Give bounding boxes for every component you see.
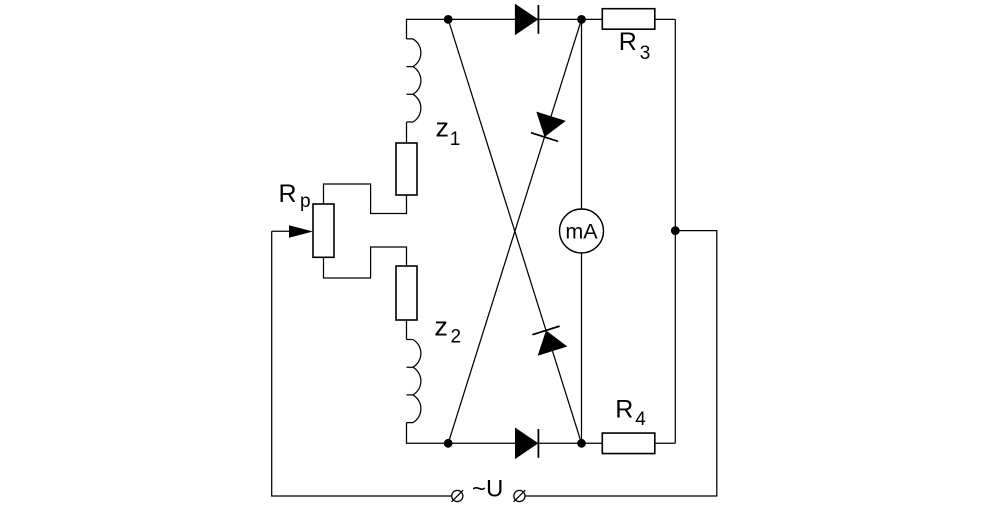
node right-mid [671,226,680,235]
svg-text:R: R [619,28,637,56]
wire right vertical R3 to R4 [674,19,676,443]
svg-text:1: 1 [450,129,461,150]
wire wiper lead [272,230,292,232]
wire Z2 box to Z2 coil [406,320,408,340]
node top-left [444,15,453,24]
label z1 [436,113,461,150]
diode lower-cross cathode bar [532,326,559,335]
label Rp [279,180,311,212]
wire bottom rail from Z2 corner to R4 [407,423,603,444]
wire diagonal from top-left node to bottom-right node [448,19,581,443]
wire Rp bottom to Z2 top (zigzag) [324,247,407,278]
svg-text:R: R [279,180,297,208]
terminal left [452,490,463,501]
label R3 [619,28,651,64]
diode bottom triangle [515,428,538,460]
svg-text:p: p [300,191,311,212]
label R4 [615,396,646,430]
svg-text:3: 3 [640,43,651,64]
diode top cathode bar [537,5,539,34]
diode lower-cross triangle [538,330,568,355]
inductor Z1 coil [407,39,421,122]
wire right outer branch from source to right vertical [525,231,717,496]
inductor Z2 coil [407,340,421,423]
diode top triangle [515,4,538,36]
svg-text:z: z [436,113,450,143]
resistor R4 [602,433,655,454]
node bottom-left [444,439,453,448]
terminal right [514,490,525,501]
wire top rail from Z1 corner to R3 [407,19,603,39]
milliammeter mA [560,209,604,253]
svg-text:z: z [434,312,448,342]
node top-right [577,15,586,24]
wiper arrow of Rp [289,225,313,238]
wire Z1 coil to Z1 box [406,122,408,143]
wire meter branch upper [581,19,583,209]
svg-text:mA: mA [565,220,598,244]
svg-text:~U: ~U [472,475,503,502]
diode upper-cross triangle [536,112,566,137]
wire meter branch lower [581,253,583,443]
wire diagonal from top-right node to bottom-left node [448,19,581,443]
label z2 [434,312,461,348]
wire Z1 box to Rp top (zigzag) [324,184,407,214]
wire R3 right to corner [655,18,676,20]
svg-text:R: R [615,396,633,424]
diode upper-cross cathode bar [531,133,558,142]
resistor box of Z1 [396,143,417,195]
diode bottom cathode bar [537,429,539,458]
resistor box of Z2 [396,266,417,320]
potentiometer Rp body [313,204,334,257]
node bottom-right [577,439,586,448]
wire left outer branch to source [272,231,452,496]
svg-text:2: 2 [451,326,462,347]
resistor R3 [602,9,655,30]
wire R4 right to vertical [655,442,676,444]
svg-text:4: 4 [635,409,646,430]
